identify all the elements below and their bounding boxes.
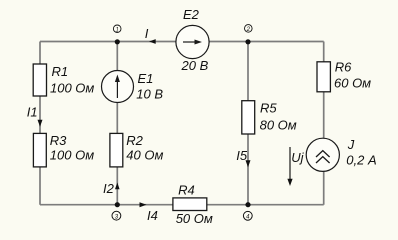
svg-text:100 Ом: 100 Ом [50,148,94,163]
svg-text:R5: R5 [260,101,277,116]
label R2 [126,133,143,148]
current arrow I5 (R5 branch, pointing down) [246,160,251,167]
svg-text:20 В: 20 В [181,58,209,73]
label J [347,137,355,152]
svg-text:I2: I2 [103,181,115,196]
node 1 badge [113,25,121,33]
svg-text:80 Ом: 80 Ом [260,118,297,133]
svg-text:1: 1 [116,27,119,33]
svg-text:J: J [347,137,355,152]
label R4 [178,182,195,197]
svg-text:100 Ом: 100 Ом [50,81,94,96]
wire right [323,42,325,205]
svg-text:I: I [145,26,149,41]
value 100 Ом (R3) [50,148,94,163]
current arrow I4 (bottom wire, pointing right) [140,202,147,207]
svg-text:0,2 А: 0,2 А [346,153,376,168]
svg-text:E2: E2 [183,7,200,22]
svg-text:I1: I1 [27,105,38,120]
label E2 [183,7,200,22]
svg-text:R6: R6 [335,60,352,75]
node 3 badge [112,211,121,220]
label I4 [147,208,158,223]
junction at node 3 [115,202,120,207]
value 80 Ом (R5) [260,118,297,133]
svg-text:E1: E1 [138,71,154,86]
value 20 В (E2) [181,58,209,73]
resistor R1 [33,64,46,96]
junction at node 4 [245,202,250,207]
label R6 [335,60,352,75]
current source J [306,138,339,171]
label R1 [52,64,69,79]
current arrow I2 (middle branch, pointing up) [115,183,120,190]
resistor R3 [33,133,46,167]
voltage source E1 [102,71,134,103]
label Uj [291,150,304,165]
label I5 [236,148,248,163]
label R5 [260,101,277,116]
value 50 Ом (R4) [176,211,213,226]
svg-text:2: 2 [246,27,251,33]
value 40 Ом (R2) [126,148,163,163]
wire top [40,41,324,43]
value 0,2 А (J) [346,153,376,168]
wire left [39,42,41,205]
resistor R6 [317,62,330,92]
current arrow I (top wire, pointing left) [149,39,156,44]
resistor R4 [173,198,207,211]
value 60 Ом (R6) [334,76,371,91]
wire bottom [40,204,324,206]
svg-text:I5: I5 [236,148,248,163]
junction at node 2 [245,39,250,44]
junction at node 1 [115,39,120,44]
label E1 [138,71,154,86]
node 2 badge [245,25,253,33]
svg-text:R3: R3 [50,133,67,148]
svg-text:R4: R4 [178,182,195,197]
wire branch R5 [247,42,249,205]
current arrow I1 (left wire, pointing down) [38,120,43,127]
svg-text:R1: R1 [52,64,69,79]
svg-text:60 Ом: 60 Ом [334,76,371,91]
node 4 badge [243,211,252,220]
svg-text:Uj: Uj [291,150,304,165]
value 10 В (E1) [136,87,163,102]
resistor R5 [242,101,255,134]
wire middle branch E1-R2 [116,42,118,205]
svg-text:40 Ом: 40 Ом [126,148,163,163]
value 100 Ом (R1) [50,81,94,96]
resistor R2 [110,133,123,167]
label R3 [50,133,67,148]
label I1 [27,105,38,120]
svg-text:I4: I4 [147,208,158,223]
svg-text:50 Ом: 50 Ом [176,211,213,226]
voltage source E2 [176,25,209,58]
voltage arrow Uj (pointing down) [287,147,292,186]
svg-text:R2: R2 [126,133,143,148]
svg-text:10 В: 10 В [136,87,163,102]
label I2 [103,181,115,196]
label I [145,26,149,41]
